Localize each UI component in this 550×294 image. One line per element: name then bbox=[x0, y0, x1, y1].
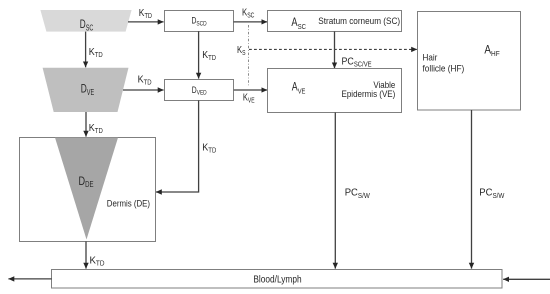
box A_SC Stratum corneum (SC) bbox=[268, 11, 402, 32]
svg-text:PCSC/VE: PCSC/VE bbox=[342, 55, 372, 68]
wire PC_SC/VE from A_SC down to A_VE bbox=[335, 31, 372, 68]
svg-text:Epidermis (VE): Epidermis (VE) bbox=[342, 89, 396, 99]
svg-text:Stratum corneum (SC): Stratum corneum (SC) bbox=[318, 16, 400, 26]
svg-text:KSC: KSC bbox=[242, 7, 254, 20]
wire K_S dash-dot branch line bbox=[248, 25, 250, 87]
box A_VE Viable Epidermis (VE) bbox=[268, 69, 402, 113]
svg-text:PCS/W: PCS/W bbox=[345, 186, 370, 199]
box Blood/Lymph bbox=[52, 270, 503, 289]
wire K_TD from D_VE to D_VED bbox=[123, 74, 164, 90]
wire K_TD from D_SC to D_SCD bbox=[128, 7, 164, 22]
svg-text:KTD: KTD bbox=[89, 46, 103, 59]
wire K_TD from D_SCD down to D_VED bbox=[199, 31, 216, 78]
svg-text:Blood/Lymph: Blood/Lymph bbox=[253, 275, 301, 286]
compartment D_VE (viable epidermis donor trapezoid) bbox=[43, 68, 129, 112]
wire blood outflow arrow left bbox=[8, 278, 51, 280]
wire K_TD elbow from D_VED down into dermis box bbox=[156, 100, 216, 192]
svg-text:KTD: KTD bbox=[202, 49, 216, 62]
wire K_TD from D_VE down to dermis box bbox=[86, 112, 103, 137]
wire K_TD from D_SC down to D_VE bbox=[86, 32, 103, 68]
box D_VED bbox=[165, 80, 234, 101]
svg-text:KS: KS bbox=[237, 44, 246, 57]
wire K_VE from D_VED to A_VE bbox=[234, 90, 267, 104]
wire K_SC from D_SCD to A_SC bbox=[234, 7, 268, 22]
svg-text:KTD: KTD bbox=[89, 122, 103, 135]
svg-text:KTD: KTD bbox=[202, 142, 216, 155]
svg-text:Dermis (DE): Dermis (DE) bbox=[107, 199, 150, 209]
svg-text:follicle (HF): follicle (HF) bbox=[423, 63, 465, 73]
box Hair follicle (HF) bbox=[418, 12, 521, 111]
wire blood inflow arrow right bbox=[503, 278, 550, 280]
svg-text:KTD: KTD bbox=[90, 255, 105, 268]
svg-text:KTD: KTD bbox=[138, 74, 152, 87]
wire K_S dashed arrow to hair follicle bbox=[237, 44, 417, 57]
wire PC_S/W from hair follicle down to blood bbox=[472, 110, 505, 269]
wire PC_S/W from A_VE down to blood bbox=[335, 113, 370, 269]
svg-text:Hair: Hair bbox=[423, 52, 438, 62]
compartment D_DE (dermis triangle) bbox=[55, 138, 118, 240]
svg-text:KTD: KTD bbox=[139, 7, 152, 20]
svg-text:PCS/W: PCS/W bbox=[479, 186, 504, 199]
compartment D_SC (stratum corneum donor trapezoid) bbox=[40, 10, 131, 33]
wire K_TD from dermis down to blood bbox=[86, 241, 105, 268]
box Dermis (DE) bbox=[20, 138, 156, 242]
box D_SCD bbox=[165, 11, 234, 32]
svg-text:KVE: KVE bbox=[243, 92, 255, 105]
